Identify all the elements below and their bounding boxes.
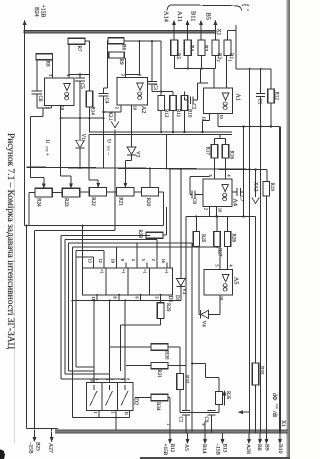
svg-text:6: 6	[120, 378, 124, 380]
wire caps to resistor tops	[160, 41, 162, 95]
resistor R12	[270, 69, 272, 89]
diode V3	[176, 279, 185, 286]
wire B8 vertical	[260, 127, 262, 434]
pin -15V B13	[222, 433, 224, 438]
svg-text:8: 8	[113, 297, 118, 299]
svg-text:A1: A1	[234, 94, 240, 101]
svg-text:U: U	[106, 139, 112, 143]
svg-text:R30: R30	[163, 351, 168, 360]
svg-text:R7: R7	[76, 46, 82, 52]
svg-text:B23: B23	[34, 442, 40, 451]
op-amp A2	[117, 78, 147, 106]
op-amp A5	[204, 270, 232, 295]
svg-text:=1: =1	[164, 269, 168, 273]
svg-text:B8: B8	[256, 444, 262, 451]
svg-text:9: 9	[120, 259, 125, 261]
wire R24 left end down	[29, 192, 35, 194]
svg-text:R6: R6	[121, 44, 127, 50]
resistor R34	[151, 394, 168, 400]
resistor R2	[212, 40, 219, 56]
wire long vertical x192	[191, 243, 193, 431]
wire A2 pin2 to X2.1	[120, 105, 122, 112]
wire X2.1 down	[114, 130, 116, 231]
wire C7 junction to bus	[242, 168, 244, 170]
svg-text:R13: R13	[163, 109, 168, 118]
capacitor C6	[32, 90, 42, 92]
svg-text:R26: R26	[230, 234, 235, 243]
svg-text:–15В: –15В	[27, 441, 33, 454]
svg-text:10: 10	[111, 259, 116, 263]
wire R7 left to pin	[68, 44, 70, 78]
svg-text:C3: C3	[152, 84, 157, 90]
connector X4.2	[255, 170, 257, 198]
svg-text:∞: ∞	[133, 91, 147, 100]
resistor R33	[252, 363, 259, 385]
pin A14 arrow	[173, 26, 175, 40]
svg-text:9: 9	[95, 378, 99, 380]
svg-text:R29: R29	[165, 303, 170, 312]
svg-text:R28: R28	[137, 230, 142, 239]
svg-text:10: 10	[218, 208, 223, 212]
svg-text:13: 13	[88, 259, 93, 263]
wire output bus y216.5	[186, 216, 256, 218]
wire R25 R27 bottom node	[195, 246, 197, 248]
svg-text:5: 5	[110, 378, 114, 380]
IC D2	[86, 382, 133, 410]
svg-text:R22: R22	[90, 197, 96, 206]
svg-text:6: 6	[134, 297, 139, 299]
svg-text:R9: R9	[118, 59, 124, 65]
svg-text:C1: C1	[257, 99, 262, 105]
svg-text:X4.2: X4.2	[253, 182, 258, 192]
svg-text:R2: R2	[216, 53, 222, 59]
svg-text:R33: R33	[258, 366, 263, 375]
resistor R3	[198, 40, 205, 56]
svg-text:10: 10	[219, 115, 224, 119]
svg-text:∞: ∞	[218, 193, 232, 202]
svg-text:D2: D2	[133, 398, 139, 405]
svg-text:∞: ∞	[219, 283, 233, 292]
wire A5 pin10 down	[219, 295, 221, 314]
svg-text:C1: C1	[178, 417, 183, 423]
wire R26 bottom to pin4	[227, 247, 229, 270]
svg-text:+15В: +15В	[40, 5, 46, 18]
wire A3 output pin10	[60, 105, 62, 176]
wire bundle line6	[76, 250, 104, 252]
potentiometer R22	[89, 188, 106, 197]
arrow +15V B24 entry	[24, 21, 26, 28]
svg-text:D1: D1	[174, 295, 180, 302]
svg-text:R5: R5	[175, 53, 181, 59]
wire D2 bottom bus	[72, 417, 129, 419]
wire bottom long	[27, 428, 59, 430]
svg-text:упр: упр	[107, 146, 111, 152]
resistor R13	[158, 96, 165, 111]
resistor R10	[181, 96, 188, 111]
wire bundle line2	[61, 235, 150, 237]
svg-text:=1: =1	[121, 269, 125, 273]
op-amp A1	[204, 88, 233, 114]
svg-text:9: 9	[201, 424, 205, 426]
wire R6 right jog	[124, 40, 161, 42]
svg-text:4: 4	[227, 175, 232, 177]
svg-text:12: 12	[98, 259, 103, 263]
svg-text:B24: B24	[33, 7, 39, 17]
wire A1 input pins	[213, 69, 215, 89]
resistor R30	[151, 344, 168, 350]
wire A3 pin2 stub	[51, 105, 53, 108]
svg-text:2: 2	[204, 208, 209, 210]
resistor R6	[108, 38, 124, 44]
svg-text:3: 3	[154, 297, 159, 299]
svg-text:R23: R23	[63, 198, 69, 207]
diode V1	[79, 118, 81, 140]
wire bus end to R19	[266, 170, 268, 182]
+15V supply rail	[24, 30, 217, 33]
wire branch down from bus	[200, 69, 202, 84]
resistor R26	[224, 232, 230, 247]
svg-text:R4: R4	[189, 45, 195, 51]
resistor R7	[68, 38, 85, 44]
op-amp A4	[203, 179, 232, 207]
wire A5 left long	[198, 247, 200, 315]
svg-text:R31: R31	[156, 370, 161, 379]
brace over X1 pins	[167, 5, 242, 11]
capacitor C8 feedback A4	[195, 194, 203, 196]
resistor R1	[224, 40, 231, 56]
resistor R19	[263, 182, 270, 197]
resistor R32	[177, 374, 184, 390]
resistor R11	[170, 96, 177, 111]
svg-text:C7: C7	[239, 196, 244, 202]
long bus y169.9	[27, 167, 268, 169]
diode V4	[199, 313, 200, 315]
resistor R9	[109, 52, 125, 58]
svg-text:B10: B10	[277, 444, 283, 454]
D1 bottom pins	[96, 294, 98, 296]
svg-text:U: U	[44, 140, 50, 144]
wire pot interconnects	[52, 192, 62, 194]
wire down to D1 pin16	[169, 169, 171, 268]
svg-text:R32: R32	[184, 375, 189, 384]
svg-text:4: 4	[138, 74, 143, 76]
svg-text:2: 2	[114, 107, 119, 109]
pin B14	[204, 422, 206, 434]
svg-text:R8: R8	[45, 61, 51, 67]
svg-text:R34: R34	[155, 402, 160, 411]
svg-text:A5: A5	[183, 444, 189, 451]
svg-text:R12: R12	[273, 92, 278, 101]
svg-text:A27: A27	[48, 443, 54, 453]
resistor R5	[171, 40, 178, 56]
resistor R8	[36, 54, 53, 60]
svg-text:A4: A4	[231, 199, 237, 206]
bus double line	[89, 131, 232, 133]
svg-text:B11: B11	[190, 11, 197, 21]
svg-text:∞: ∞	[60, 92, 74, 101]
wire bundle line4	[69, 242, 193, 244]
svg-text:V3: V3	[181, 288, 187, 295]
resistor R25	[193, 232, 199, 247]
wire R6 R9 left common	[107, 41, 109, 88]
svg-text:16: 16	[161, 259, 166, 263]
svg-text:V1: V1	[80, 134, 86, 141]
potentiometer R24	[35, 188, 52, 197]
capacitor C4	[104, 87, 108, 89]
wire bus to V3 top	[180, 169, 182, 279]
pin B8	[259, 433, 261, 438]
svg-text:2: 2	[151, 259, 156, 261]
svg-text:4: 4	[105, 378, 109, 380]
svg-text:R35: R35	[225, 391, 230, 400]
svg-text:8: 8	[126, 378, 130, 380]
wire B10 thick vertical	[279, 127, 281, 434]
wire C6 to pin2 and Uupr wire	[37, 107, 52, 109]
svg-text:R3: R3	[202, 45, 208, 51]
resistor R17	[211, 145, 217, 159]
svg-text:A5: A5	[233, 277, 239, 284]
wire D1 pins down to D2	[93, 301, 95, 383]
svg-text:R19: R19	[269, 183, 274, 192]
wire A28 vertical	[249, 69, 251, 434]
resistor R27	[214, 232, 220, 247]
svg-text:4: 4	[66, 74, 71, 76]
IC D1	[83, 268, 173, 295]
pin A28	[248, 433, 250, 438]
svg-text:X1: X1	[215, 29, 221, 36]
wire A1 pin10 output	[217, 114, 219, 127]
wire caps common	[180, 412, 219, 414]
svg-text:B12: B12	[169, 444, 175, 453]
svg-text:X2.1: X2.1	[107, 112, 112, 122]
svg-text:4: 4	[131, 259, 136, 261]
wire R19 bottom to B9	[265, 196, 267, 433]
pin B9	[266, 433, 268, 438]
svg-text:–: –	[106, 152, 112, 156]
capacitor C9	[207, 409, 215, 411]
wire bundle line5	[72, 246, 220, 248]
svg-text:10: 10	[132, 106, 137, 110]
wire left rail vertical	[24, 22, 26, 226]
svg-text:B13: B13	[222, 444, 228, 453]
svg-text:=1: =1	[99, 269, 103, 273]
pin B5 arrow	[214, 26, 216, 40]
svg-text:R11: R11	[175, 109, 180, 118]
svg-text:R24: R24	[36, 198, 42, 207]
svg-text:1: 1	[227, 60, 232, 62]
svg-text:10: 10	[89, 378, 93, 382]
svg-text:12: 12	[202, 117, 207, 121]
resistor R4	[184, 40, 191, 56]
svg-text:/dt: /dt	[271, 411, 277, 418]
svg-text:11: 11	[124, 412, 128, 416]
wire bundle line1	[35, 230, 116, 232]
svg-text:X1: X1	[280, 420, 286, 427]
op-amp A3	[45, 78, 74, 105]
resistor R31	[151, 362, 168, 368]
D2 bottom pins	[98, 410, 100, 417]
label f	[242, 5, 246, 6]
svg-text:dФ: dФ	[271, 393, 277, 401]
arrow -15V B23	[34, 430, 36, 442]
wire R20 right end down	[158, 191, 163, 193]
resistor R20	[141, 188, 158, 197]
wire R4 bottom	[187, 56, 189, 69]
wire R1 top jog	[226, 36, 228, 40]
svg-text:R1: R1	[228, 53, 234, 59]
wire A4 pin10 output	[215, 207, 217, 217]
wire output bus H y126.5	[218, 126, 280, 128]
svg-text:4: 4	[229, 265, 234, 267]
svg-text:+15В: +15В	[162, 444, 168, 456]
wire R27 R26 tops from bus	[216, 217, 218, 232]
svg-text:B5: B5	[204, 13, 211, 20]
capacitor C2 feedback A1	[184, 96, 186, 100]
svg-text:–15В: –15В	[215, 443, 221, 456]
arrow A27	[51, 429, 53, 432]
wire bus to V4 branch vertical	[166, 134, 168, 169]
svg-text:3: 3	[121, 74, 126, 76]
wire R13 R11 R10 to bus	[160, 111, 162, 133]
svg-text:C9: C9	[203, 417, 208, 423]
pin B10	[279, 433, 281, 438]
svg-text:R21: R21	[117, 197, 123, 206]
svg-text:R17: R17	[205, 147, 210, 156]
svg-text:B14: B14	[201, 444, 207, 454]
wire right mid vertical	[243, 127, 245, 170]
svg-text:н: н	[246, 9, 250, 11]
svg-text:зад: зад	[275, 404, 279, 409]
wire A3 top node	[69, 74, 90, 76]
svg-text:1: 1	[93, 412, 97, 414]
wire A4 pin2 down	[209, 207, 211, 217]
wire D1 bottom bus	[72, 300, 181, 302]
svg-text:2: 2	[216, 60, 221, 62]
wire R33 feed	[255, 217, 257, 364]
wire R29 bottom left	[120, 324, 160, 326]
capacitor C1	[260, 69, 262, 94]
wire R9 right to pin	[125, 58, 127, 78]
svg-text:V2: V2	[135, 151, 141, 158]
wire R17 R16 to A4 pins	[214, 158, 216, 179]
pin B11 arrow	[200, 26, 202, 40]
svg-text:C4: C4	[103, 98, 108, 104]
svg-text:D1: D1	[167, 296, 173, 303]
svg-text:упр: упр	[45, 146, 49, 152]
wire R8 left down	[36, 60, 38, 91]
wire R16 R17 tops	[219, 134, 221, 138]
capacitor C5	[79, 75, 81, 78]
capacitor C1 bottom	[182, 409, 190, 411]
svg-text:1: 1	[166, 424, 170, 426]
wire A2 pin10 output	[131, 105, 133, 147]
svg-text:R20: R20	[145, 198, 151, 207]
svg-text:C8: C8	[191, 198, 196, 204]
svg-text:A28: A28	[245, 444, 251, 454]
svg-text:R27: R27	[217, 248, 222, 257]
pin +15V B12	[169, 433, 171, 438]
svg-text:R14: R14	[89, 107, 94, 116]
wire V2 to R21 wiper	[125, 159, 131, 161]
svg-text:+: +	[44, 153, 50, 156]
resistor R16	[222, 145, 228, 159]
wire A2 top node	[126, 74, 140, 76]
D1 top pin stubs and numbers	[93, 262, 95, 268]
wire mid bus y225.7	[25, 225, 164, 227]
svg-text:R10: R10	[186, 109, 191, 118]
svg-text:Рисунок 7.1 – Комірка задавача: Рисунок 7.1 – Комірка задавача інтенсивн…	[5, 133, 15, 350]
svg-text:2: 2	[45, 107, 50, 109]
arrow off-sheet left	[239, 411, 250, 413]
wire R8 right to pin	[52, 60, 54, 78]
svg-text:B9: B9	[264, 444, 270, 451]
resistor R28	[146, 232, 163, 238]
svg-text:A14: A14	[163, 11, 170, 23]
svg-text:=1: =1	[142, 269, 146, 273]
wire A1 pin2 out	[209, 114, 211, 121]
resistor R29	[160, 301, 162, 303]
wire R5 R3 R2 bottoms bus	[173, 56, 175, 69]
pin A11 arrow	[187, 26, 189, 40]
svg-text:R25: R25	[200, 234, 205, 243]
svg-text:3: 3	[48, 74, 53, 76]
resistor R14	[89, 75, 91, 92]
connector X2.1	[111, 122, 119, 128]
svg-text:C5: C5	[79, 83, 84, 89]
svg-text:5: 5	[215, 265, 220, 267]
capacitor C3	[151, 41, 153, 81]
svg-text:A2: A2	[140, 106, 146, 113]
capacitor C7	[232, 191, 237, 193]
wire bundle line3	[65, 238, 157, 240]
svg-text:3: 3	[110, 412, 114, 414]
pin A5	[187, 433, 189, 438]
wire right top bus	[236, 68, 271, 70]
svg-text:11: 11	[91, 297, 96, 301]
svg-text:5: 5	[141, 259, 146, 261]
potentiometer R23	[62, 188, 79, 197]
switch symbols in D2	[93, 385, 95, 390]
resistor R35 trimmer	[192, 363, 205, 365]
svg-text:f: f	[243, 4, 250, 6]
wire R7 right to R14	[85, 40, 90, 42]
svg-text:V4: V4	[201, 321, 207, 328]
svg-text:C6: C6	[37, 96, 42, 102]
diode V2	[127, 147, 136, 154]
svg-text:∞: ∞	[219, 101, 233, 110]
potentiometer R21	[117, 188, 134, 197]
bottom 0V rail	[55, 430, 288, 434]
svg-text:A11: A11	[176, 11, 183, 22]
svg-text:R16: R16	[229, 151, 234, 160]
